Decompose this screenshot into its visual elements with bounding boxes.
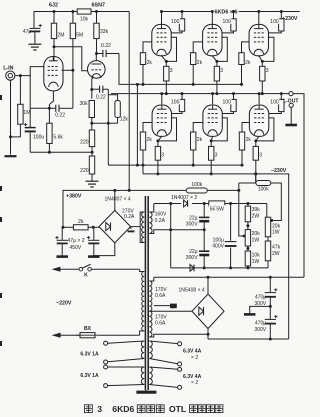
node 3 upper to rail 2 <box>215 92 218 95</box>
terminal 6.3V4A c <box>178 367 182 371</box>
node V2 anode 33k <box>95 52 98 55</box>
wire grid upper 2 <box>193 42 202 53</box>
wire bridge2 bottom <box>207 329 209 339</box>
resistor 5k 5W <box>209 201 225 206</box>
node 100 upper rail 3 <box>280 10 283 13</box>
winding 270V primary side <box>142 212 145 242</box>
node cathode lower 1 <box>156 139 159 142</box>
node 220 junction <box>91 151 94 154</box>
wire output rail to speaker line <box>293 94 304 278</box>
wire -230 to 100k <box>255 174 257 183</box>
svg-text:100: 100 <box>270 99 279 105</box>
node screen 5M junction <box>71 69 74 72</box>
svg-text:6.3V 1A: 6.3V 1A <box>80 351 99 357</box>
wire L-IN shield down <box>10 80 12 154</box>
node bias tap arrow <box>243 235 246 238</box>
wire 220 to ground <box>91 174 93 181</box>
capacitor 0.22 coupling upper <box>97 53 103 55</box>
svg-text:30k: 30k <box>79 101 88 107</box>
svg-text:5M: 5M <box>76 33 83 39</box>
node 2k lower bus 2 <box>192 164 195 167</box>
capacitor 470u second <box>265 318 276 320</box>
svg-text:6.3V 4A: 6.3V 4A <box>183 374 202 380</box>
node 2k lower bus 1 <box>142 164 145 167</box>
node 5M top <box>71 10 74 13</box>
wire bridge bottom <box>94 243 115 256</box>
tube V3 6KD6 upper 1 <box>152 24 171 55</box>
tube V5 6KD6 upper 3 <box>249 24 268 55</box>
wire switch line <box>60 268 79 270</box>
wire grid lower 3 <box>242 123 249 133</box>
diode D1 1N4007 <box>181 200 192 208</box>
node 39k tap <box>246 202 249 205</box>
svg-text:22μ: 22μ <box>189 249 198 255</box>
terminal L-OUT return <box>289 103 293 107</box>
capacitor 100u 400V <box>224 241 237 248</box>
wire V6 cathode <box>158 136 162 141</box>
wire V8 cathode <box>256 136 259 141</box>
tube V1 6J2 <box>44 57 63 91</box>
svg-text:100u: 100u <box>33 134 44 140</box>
node V7 anode rail <box>211 92 214 95</box>
resistor 100 screen lower 2 <box>233 94 235 100</box>
wire V7 cathode <box>211 136 212 141</box>
wire Vc bootstrap <box>136 84 138 165</box>
node 5.6k ground rail <box>48 151 51 154</box>
resistor 39k 2W <box>247 204 249 207</box>
tube V6 6KD6 lower 1 <box>152 105 171 136</box>
terminal L-IN <box>6 71 15 80</box>
bridge rectifier 1N4007 x4 <box>99 210 131 243</box>
wire 10k bottom <box>247 266 249 268</box>
resistor 33k <box>96 12 98 24</box>
svg-text:0.22: 0.22 <box>101 43 111 49</box>
terminal 6.3V1A d <box>104 384 108 388</box>
node 100 lower rail 1 <box>181 92 184 95</box>
node 3 upper to rail 3 <box>261 92 264 95</box>
svg-text:1M: 1M <box>23 110 30 116</box>
node Vc at lower bus <box>136 164 139 167</box>
wire V8 anode <box>258 94 260 105</box>
svg-text:2W: 2W <box>252 213 260 219</box>
svg-text:300V: 300V <box>186 255 198 261</box>
wire screen loop lower 3 <box>256 118 274 141</box>
capacitor 100u cathode <box>25 127 36 129</box>
node 2k upper bus 2 <box>192 83 195 86</box>
wire switch to primary <box>91 268 139 270</box>
resistor 3 lower 3 <box>255 141 257 147</box>
wire L-IN to grid <box>15 75 31 77</box>
node bias tee down <box>107 122 110 125</box>
svg-text:20k: 20k <box>272 223 281 229</box>
wire input ground rail <box>30 151 92 153</box>
winding 170V first <box>149 281 152 311</box>
mains arrow upper <box>52 267 61 272</box>
svg-text:3: 3 <box>220 68 223 74</box>
svg-text:3: 3 <box>215 152 218 158</box>
bridge polarity mark <box>128 230 135 232</box>
wire bridge right to winding <box>131 226 141 228</box>
resistor 3 upper 1 <box>165 61 167 66</box>
node diode line vert <box>169 202 172 205</box>
wire 30k to 220 <box>91 118 93 131</box>
wire V5 cathode <box>259 56 263 62</box>
resistor 10k 1W <box>245 251 250 266</box>
capacitor 22u first <box>199 216 209 218</box>
svg-text:170V: 170V <box>155 314 167 320</box>
node 3 lower to rail 1 <box>156 172 159 175</box>
node 22u bottom <box>203 266 206 269</box>
node 2M top <box>53 10 56 13</box>
svg-text:2W: 2W <box>272 251 280 257</box>
node 3 lower to rail 2 <box>210 172 213 175</box>
wire grid lower 1 <box>143 123 152 133</box>
svg-text:33k: 33k <box>100 29 109 35</box>
svg-text:47μ × 2: 47μ × 2 <box>68 238 85 244</box>
capacitor 0.22 feedback <box>30 107 56 109</box>
svg-text:K: K <box>84 273 88 279</box>
wire 47k bottom <box>267 261 269 268</box>
wire 20k 10k <box>247 246 249 251</box>
resistor 5M <box>72 12 74 24</box>
svg-text:470μ: 470μ <box>255 321 266 327</box>
wire 22u chain <box>203 204 205 218</box>
svg-text:100: 100 <box>222 19 231 25</box>
winding 6.3V 4A second <box>149 367 152 385</box>
svg-text:× 2: × 2 <box>191 355 198 361</box>
wire V4 anode <box>211 12 213 25</box>
svg-text:300V: 300V <box>254 327 266 333</box>
wire V7 anode <box>212 94 214 105</box>
svg-text:2k: 2k <box>78 219 84 225</box>
svg-text:10k: 10k <box>252 253 261 259</box>
svg-text:20k: 20k <box>252 231 261 237</box>
winding 6.3V 1A second <box>141 367 144 385</box>
node 2k lower bus 3 <box>241 164 244 167</box>
svg-text:0.6A: 0.6A <box>155 293 166 299</box>
capacitor 47u x2 first <box>61 227 63 240</box>
wire screen loop lower 1 <box>158 118 177 141</box>
svg-text:100μ: 100μ <box>213 237 224 243</box>
wire screen loop upper 2 <box>217 37 227 61</box>
resistor 2k dropper <box>73 225 88 230</box>
winding 6.3V 1A first <box>141 341 144 359</box>
wire -230V rail <box>143 174 289 339</box>
node 39k 20k junction <box>246 224 249 227</box>
svg-text:39k: 39k <box>252 207 261 213</box>
ground 47u <box>28 43 41 45</box>
resistor 100 screen lower 1 <box>181 94 183 100</box>
svg-text:100: 100 <box>222 99 231 105</box>
ground transformer core <box>145 390 147 391</box>
wire V5 anode <box>258 12 260 25</box>
terminal 6.3V4A a <box>178 342 182 346</box>
resistor 1M <box>18 104 23 124</box>
wire 20k 47k junction <box>267 237 269 241</box>
svg-text:~220V: ~220V <box>56 301 72 307</box>
wire bias tee <box>92 122 109 124</box>
svg-text:1N5408 × 4: 1N5408 × 4 <box>179 287 205 293</box>
terminal L-OUT hot <box>289 92 293 96</box>
svg-text:450V: 450V <box>70 245 82 251</box>
resistor 2k grid lower 3 <box>239 132 244 150</box>
wire V2 cathode down <box>92 77 94 99</box>
wire 170V centre tap <box>149 310 192 312</box>
node cathode lower 2 <box>210 139 213 142</box>
wire upper grid bus <box>119 54 242 85</box>
svg-text:0.2A: 0.2A <box>155 218 166 224</box>
svg-text:10k: 10k <box>80 17 89 23</box>
mains arrow lower <box>52 333 61 338</box>
tube V2 6SN7 <box>88 61 106 79</box>
node V8 anode rail <box>258 92 261 95</box>
wire phase to 12k <box>108 95 117 101</box>
node bridge2 bottom fe <box>207 333 210 336</box>
wire 1M top lead <box>19 76 21 105</box>
svg-text:2k: 2k <box>245 60 251 66</box>
resistor 2k grid upper 3 <box>239 53 244 65</box>
wire 160V return to caps <box>171 229 205 231</box>
wire fuse line left <box>60 334 80 336</box>
svg-text:47μ: 47μ <box>23 29 32 35</box>
capacitor 22u second <box>199 250 209 252</box>
wire fuse to primary <box>99 334 140 336</box>
resistor 20k 1W right <box>265 217 270 237</box>
svg-text:0.2A: 0.2A <box>124 214 135 220</box>
wire V1 anode to 2M <box>53 47 55 61</box>
node 100 lower rail 2 <box>232 92 235 95</box>
node 2k right <box>92 226 95 229</box>
node 470u bottom <box>269 338 272 341</box>
svg-text:5.6k: 5.6k <box>53 135 63 141</box>
wire positive output rail <box>154 276 304 278</box>
node 10k rail <box>246 266 249 269</box>
wire preamp B+ rail <box>34 12 129 29</box>
ground 470u mid <box>244 313 256 316</box>
node 2k left <box>62 226 65 229</box>
svg-text:1W: 1W <box>252 237 260 243</box>
resistor 2k grid lower 2 <box>191 132 196 150</box>
wire phase drop <box>107 89 109 165</box>
bridge rectifier 1N5408 x4 <box>192 294 224 329</box>
resistor 3 lower 1 <box>157 141 159 147</box>
wire diode line <box>154 203 267 205</box>
terminal 6.3V1A b <box>104 360 108 364</box>
winding 220V mains primary <box>142 272 144 332</box>
svg-text:0.22: 0.22 <box>55 112 65 118</box>
node V5 anode rail <box>257 10 260 13</box>
scan edge marks <box>0 95 2 100</box>
node V3 anode rail <box>160 10 163 13</box>
svg-text:5k 5W: 5k 5W <box>210 206 225 212</box>
capacitor 47u x2 second <box>93 227 95 240</box>
svg-text:170V: 170V <box>155 287 167 293</box>
node -230V 100k stub <box>254 172 257 175</box>
wire bridge2 top <box>207 277 209 294</box>
svg-text:OTL: OTL <box>169 404 186 414</box>
resistor 10k <box>77 9 91 14</box>
wire +380V rail <box>63 190 239 227</box>
svg-text:100k: 100k <box>191 182 202 188</box>
node 3 lower to rail 3 <box>254 172 257 175</box>
svg-text:BX: BX <box>84 326 92 332</box>
svg-text:100: 100 <box>270 19 279 25</box>
svg-text:6KD6: 6KD6 <box>112 404 134 414</box>
wire bottom rail <box>208 338 289 340</box>
terminal 6.3V1A c <box>104 365 108 369</box>
resistor 2k grid upper 2 <box>191 53 196 65</box>
svg-text:100: 100 <box>171 99 180 105</box>
tube V4 6KD6 upper 2 <box>203 24 222 55</box>
winding 160V 0.2A <box>149 212 152 234</box>
wire lower grid bus <box>108 164 242 166</box>
node Vb at 380 rail <box>128 189 131 192</box>
resistor 12k <box>115 101 120 118</box>
terminal 6.3V4A b <box>178 362 182 366</box>
wire 39k 20k <box>247 222 249 230</box>
resistor 5.6k <box>47 123 52 143</box>
wire bridge top to rail <box>114 190 116 210</box>
wire centre tap stub <box>154 305 170 307</box>
wire +230V rail <box>162 11 300 13</box>
svg-text:–230V: –230V <box>271 168 287 174</box>
terminal 6.3V1A a <box>104 341 108 345</box>
node input junction <box>19 74 22 77</box>
svg-text:6SN7: 6SN7 <box>92 3 106 9</box>
node 470u mid <box>269 305 272 308</box>
switch K <box>79 267 83 271</box>
node cathode upper 2 <box>215 60 218 63</box>
svg-text:300V: 300V <box>186 222 198 228</box>
ground 220 chain <box>86 180 99 182</box>
svg-text:160V: 160V <box>155 212 167 218</box>
ground 47u second <box>88 255 100 258</box>
resistor 2k grid upper 1 <box>140 53 145 65</box>
resistor 100 screen upper 1 <box>181 12 183 19</box>
ground 47u first <box>56 255 67 258</box>
wire V6 anode <box>161 94 163 105</box>
wire Vb preamp feed <box>128 12 130 191</box>
node 100u line <box>229 202 232 205</box>
node 20k right feed <box>270 219 273 222</box>
wire L-OUT return down <box>290 107 292 124</box>
wire output rail <box>111 93 289 95</box>
svg-text:470μ: 470μ <box>255 295 266 301</box>
resistor 100 screen upper 3 <box>280 12 282 19</box>
resistor 220 upper <box>89 130 94 147</box>
svg-text:12k: 12k <box>120 117 129 123</box>
svg-text:× 2: × 2 <box>191 380 198 386</box>
tube V8 6KD6 lower 3 <box>249 105 268 136</box>
svg-text:100k: 100k <box>258 187 269 193</box>
node V6 anode rail <box>160 92 163 95</box>
node V1 anode <box>53 45 56 48</box>
svg-text:L-IN: L-IN <box>3 65 13 71</box>
winding 6.3V 4A first <box>149 341 152 359</box>
node 1M shield join <box>9 135 12 138</box>
node 470u top <box>269 276 272 279</box>
wire V3 anode <box>161 12 163 25</box>
wire negative rail <box>171 267 268 269</box>
node bridge2 top rail <box>207 276 210 279</box>
wire rectifier negative vertical <box>170 204 172 268</box>
resistor 3 upper 3 <box>261 61 263 66</box>
wire input to grid riser <box>30 67 44 76</box>
svg-text:6.3V 1A: 6.3V 1A <box>80 373 99 379</box>
svg-text:6J2: 6J2 <box>49 3 58 9</box>
node 2k upper bus 1 <box>142 83 145 86</box>
tube V7 6KD6 lower 2 <box>203 105 222 136</box>
caption figure 3 <box>85 405 93 413</box>
svg-text:3: 3 <box>259 152 262 158</box>
node 100 upper rail 1 <box>181 10 184 13</box>
wire screen loop upper 3 <box>262 37 274 61</box>
resistor 2M <box>53 12 55 24</box>
node 20k 10k junction <box>246 247 249 250</box>
wire screen loop lower 2 <box>211 118 227 141</box>
wire V2 anode up <box>95 54 97 61</box>
wire input riser to 100u <box>29 76 31 128</box>
ground L-OUT <box>285 124 297 127</box>
resistor 2k grid lower 1 <box>140 132 145 150</box>
resistor 20k 1W mid <box>245 230 250 246</box>
wire right chain top <box>266 204 268 218</box>
ground L-IN shield <box>5 155 17 157</box>
svg-text:100: 100 <box>171 19 180 25</box>
node 100 lower rail 3 <box>280 92 283 95</box>
resistor 220 lower <box>89 156 94 174</box>
resistor 3 upper 2 <box>216 61 218 66</box>
resistor 100 screen lower 3 <box>280 94 282 100</box>
resistor 100k upper <box>186 188 207 193</box>
svg-text:2M: 2M <box>57 33 64 39</box>
node cathode lower 3 <box>254 139 257 142</box>
wire screen loop upper 1 <box>166 37 176 61</box>
wire 100u vertical <box>230 204 232 268</box>
resistor 100k lower <box>256 181 271 186</box>
wire 5.6k bottom <box>48 144 50 153</box>
wire 1M bottom lead <box>11 124 21 137</box>
capacitor 0.22 phase <box>92 88 100 90</box>
node 100u bottom <box>229 266 232 269</box>
wire 470u chain top <box>269 277 271 292</box>
resistor 47k 2W <box>265 241 270 261</box>
winding 170V second <box>149 311 152 337</box>
wire Vbias vertical <box>238 183 240 190</box>
resistor 30k <box>89 101 94 118</box>
node 3 upper to rail 1 <box>165 92 168 95</box>
node 380 rail end <box>237 189 240 192</box>
node 30k 12k junction <box>90 122 93 125</box>
fuse BX <box>80 333 95 338</box>
wire 470u mid ground stub <box>250 306 271 313</box>
node grid bus Vc <box>136 83 139 86</box>
capacitor 470u first <box>265 292 276 294</box>
diode D2 1N4007 <box>188 264 199 272</box>
wire grid lower 2 <box>193 123 203 133</box>
wire grid upper 3 <box>242 42 250 53</box>
svg-text:2k: 2k <box>246 137 252 143</box>
wire 2k rail <box>63 226 73 228</box>
svg-text:2k: 2k <box>197 137 203 143</box>
svg-text:220: 220 <box>80 168 89 174</box>
svg-text:3: 3 <box>266 68 269 74</box>
node V4 anode rail <box>211 10 214 13</box>
resistor 3 lower 2 <box>210 141 212 147</box>
svg-text:220: 220 <box>80 140 89 146</box>
svg-text:2k: 2k <box>147 137 153 143</box>
svg-text:+380V: +380V <box>66 193 82 199</box>
